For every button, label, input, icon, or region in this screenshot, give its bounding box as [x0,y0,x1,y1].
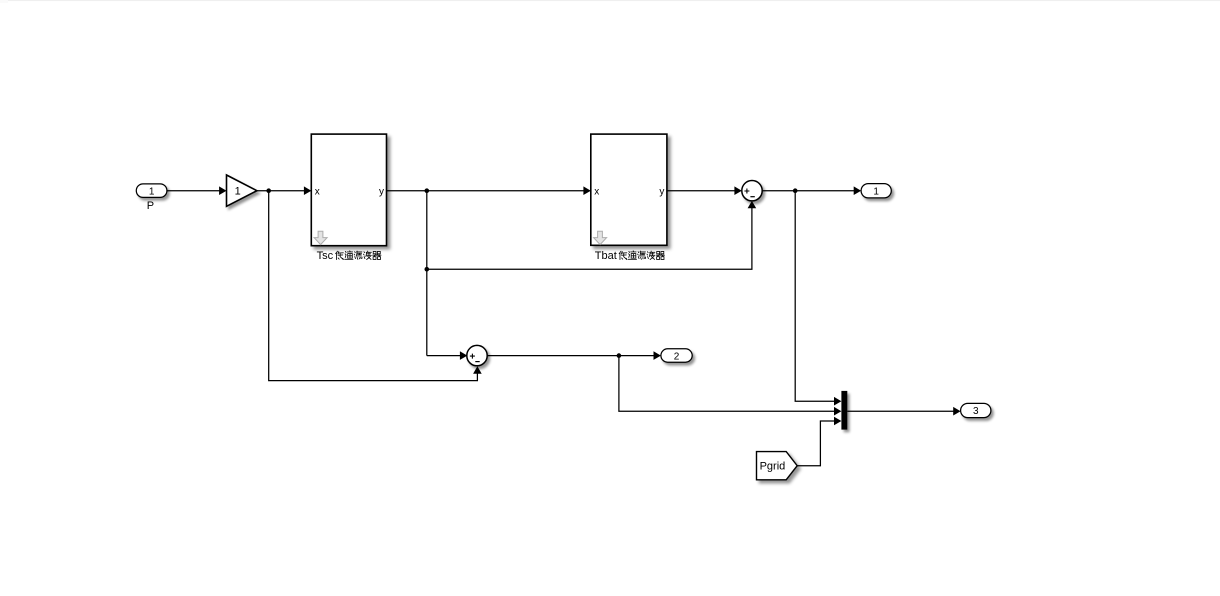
wire into Add1 (sum2) left input [427,351,468,360]
junction after gain [266,188,271,193]
outport 3 [961,403,991,417]
Goto/From tag Pgrid [757,452,798,480]
wire Pgrid -> mux input 3 [797,417,841,466]
junction before outport 2 [617,353,622,358]
sum Add (top, +-) [742,181,762,201]
wire Tbat.y -> Add (sum1) [667,186,742,195]
wire Add -> outport 1 [762,186,861,195]
wire inport1 -> gain [167,186,227,195]
wire junction down to Add1 level [426,191,428,356]
svg-text:P: P [147,200,154,212]
outport 1 [861,184,891,198]
svg-text:y: y [379,187,384,198]
subsystem Tbat low-pass filter [591,134,667,245]
junction after Add [793,188,798,193]
look-under-mask badge (Tsc) [314,231,327,244]
wire gain -> Tsc.x [257,186,311,195]
wire from gain-junction down and to Add1 bottom input [269,191,482,381]
svg-text:Tbat: Tbat [595,250,617,262]
svg-text:Tsc: Tsc [317,250,334,262]
mux block [841,391,847,430]
label: Tsc低通滤波器 [317,250,381,262]
svg-text:x: x [594,187,599,198]
faint top edge line [0,0,1220,1]
svg-text:2: 2 [674,351,680,362]
wire junction2 -> mux input 2 [619,356,842,416]
subsystem Tsc low-pass filter [311,134,386,246]
label: Tbat低通滤波器 [595,250,665,262]
junction on vertical at branch to Add bottom [425,267,430,272]
sum Add1 (bottom, +-) [467,345,487,365]
svg-text:3: 3 [973,406,979,417]
svg-text:x: x [315,187,320,198]
svg-text:1: 1 [149,186,155,197]
wire branch right to below Add (sum1 bottom input) [427,201,756,269]
svg-text:1: 1 [873,187,879,198]
svg-text:1: 1 [235,186,241,198]
svg-text:y: y [659,187,664,198]
junction after Tsc.y [425,188,430,193]
svg-text:Pgrid: Pgrid [760,461,786,473]
wire Tsc.y -> Tbat.x [387,186,591,195]
wire junction -> mux input 1 [795,191,841,406]
wire mux -> outport 3 [847,407,960,416]
inport 1 (P) [136,184,167,212]
gain block (value 1) [227,175,257,206]
look-under-mask badge (Tbat) [594,231,607,244]
wire Add1 -> outport 2 [487,351,661,360]
outport 2 [661,349,692,363]
